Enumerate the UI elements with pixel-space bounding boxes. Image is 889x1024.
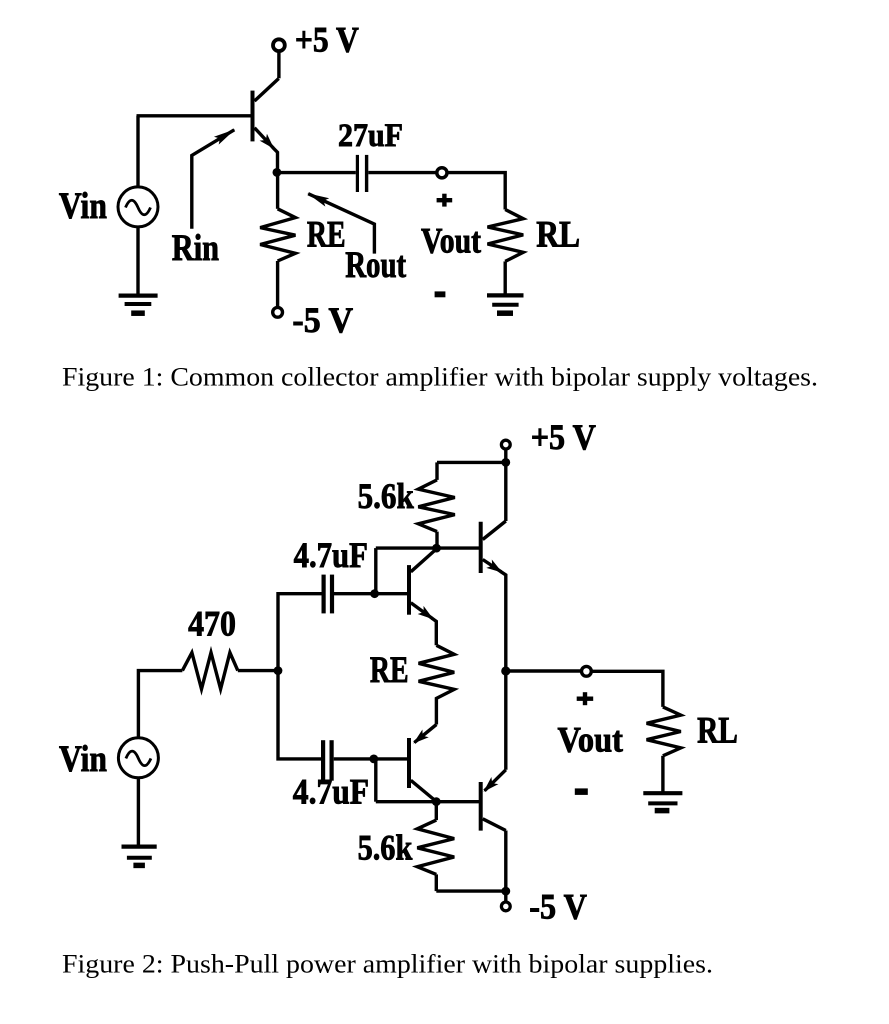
wire Q3 collector to rail — [504, 462, 507, 521]
AC source Vin (fig1) — [118, 187, 158, 227]
svg-text:5.6k: 5.6k — [358, 827, 413, 867]
emitter wire to node — [273, 148, 278, 173]
wire RL to ground — [504, 261, 507, 294]
svg-text:Figure 1: Common collector amp: Figure 1: Common collector amplifier wit… — [62, 363, 818, 392]
svg-text:27uF: 27uF — [338, 118, 403, 154]
minus sign (fig2) — [575, 788, 588, 795]
svg-text:Vout: Vout — [421, 220, 481, 260]
wire +5V terminal to rail — [504, 450, 507, 460]
transistor Q1 (NPN, fig1) — [253, 79, 279, 148]
ground (Vin fig1) — [119, 296, 158, 314]
svg-text:RE: RE — [370, 649, 409, 690]
output terminal (fig1) — [437, 168, 447, 178]
wire RE to -5V terminal — [276, 261, 279, 307]
resistor RL (fig2) — [647, 707, 681, 756]
resistor R1 5.6k (top) — [418, 462, 455, 546]
svg-text:RE: RE — [307, 214, 346, 255]
plus sign (fig2) — [577, 692, 594, 705]
node G (-5V rail) — [501, 887, 510, 896]
resistor RL (fig1) — [488, 210, 524, 262]
svg-text:Rout: Rout — [345, 244, 406, 285]
wire capacitor to output terminal — [368, 171, 435, 174]
capacitor C1 27uF plates — [357, 155, 366, 192]
svg-text:Figure 2: Push-Pull power ampl: Figure 2: Push-Pull power amplifier with… — [62, 950, 713, 979]
node A (emitter node fig1) — [273, 168, 282, 177]
wire node to capacitor — [277, 171, 356, 174]
wire Vin to ground — [136, 227, 139, 295]
svg-text:+5 V: +5 V — [531, 417, 596, 457]
-5 V terminal (fig2) — [501, 902, 510, 911]
base wire (fig1) — [137, 114, 251, 117]
wire RL to ground — [661, 756, 664, 793]
resistor R2 5.6k (bottom) — [417, 802, 454, 891]
node D (bottom cap output) — [369, 755, 378, 764]
node E (base node of Q5) — [432, 797, 441, 806]
wire Vin up to 470 — [138, 671, 182, 738]
node C (top cap output) — [370, 589, 379, 598]
svg-text:RL: RL — [536, 213, 580, 254]
minus sign (fig1) — [435, 291, 446, 297]
svg-text:Rin: Rin — [172, 227, 219, 268]
svg-text:Vin: Vin — [59, 738, 107, 779]
wire output node to terminal — [506, 669, 581, 672]
transistor Q2 (driver NPN) — [409, 549, 437, 619]
svg-text:4.7uF: 4.7uF — [293, 772, 369, 812]
transistor Q5 (output PNP) — [481, 770, 506, 831]
wire cap node up — [374, 548, 377, 594]
Rout pointer arrow — [308, 194, 374, 254]
ground (Vin fig2) — [122, 847, 157, 866]
resistor RE (fig1) — [260, 173, 295, 261]
ground (RL fig2) — [643, 793, 682, 810]
top rail wire — [437, 461, 506, 464]
resistor R3 470 — [182, 653, 237, 689]
wire cap to driver base — [334, 592, 407, 595]
capacitor C2 4.7uF (top) — [324, 575, 332, 614]
wire Q2 emitter to RE — [432, 618, 437, 645]
wire +5V to collector — [277, 52, 280, 79]
svg-text:+5 V: +5 V — [295, 20, 359, 60]
wire node to -5V terminal — [504, 891, 507, 901]
base wire to Q5 — [376, 800, 479, 803]
svg-text:Vout: Vout — [558, 720, 623, 760]
wire output terminal to RL — [448, 173, 505, 210]
wire bottom cap to Q5 base — [334, 757, 374, 760]
AC source Vin (fig2) — [118, 738, 158, 778]
wire 470 to input node — [238, 669, 278, 672]
capacitor C3 4.7uF (bottom) — [323, 740, 332, 781]
svg-text:470: 470 — [188, 603, 236, 643]
wire Vin to ground (fig2) — [137, 778, 140, 847]
svg-text:RL: RL — [697, 710, 738, 751]
bottom rail wire — [436, 889, 506, 892]
+5 V terminal (fig2) — [501, 440, 510, 449]
wire Q5 collector to -5V node — [504, 831, 507, 890]
base wire to Q4 — [374, 757, 408, 760]
output terminal (fig2) — [582, 666, 592, 676]
svg-text:-5 V: -5 V — [292, 300, 353, 340]
+5 V terminal (fig1) — [273, 39, 285, 51]
node H (input node) — [274, 666, 283, 675]
svg-text:5.6k: 5.6k — [358, 476, 414, 516]
node +5V rail — [501, 458, 510, 467]
wire terminal to RL — [592, 671, 663, 707]
node F (output node) — [501, 666, 510, 675]
wire cap node down — [374, 759, 377, 802]
wire Q3 emitter to output node — [501, 571, 506, 671]
ground (RL fig1) — [487, 295, 524, 313]
Rin pointer arrow — [192, 130, 235, 229]
node B (base node of Q3) — [432, 544, 441, 553]
transistor Q4 (driver PNP) — [409, 725, 436, 802]
wire output node to Q5 emitter — [504, 671, 507, 770]
base wire to Q3 — [376, 546, 479, 549]
plus sign (fig1) — [437, 194, 453, 207]
svg-text:-5 V: -5 V — [529, 887, 587, 927]
svg-text:4.7uF: 4.7uF — [294, 535, 368, 575]
-5 V terminal (fig1) — [273, 307, 283, 317]
transistor Q3 (output NPN) — [481, 521, 506, 573]
wire input to top cap — [278, 594, 322, 759]
svg-text:Vin: Vin — [59, 185, 107, 226]
resistor RE (fig2) — [419, 645, 455, 724]
wire Vin to base — [136, 116, 139, 186]
